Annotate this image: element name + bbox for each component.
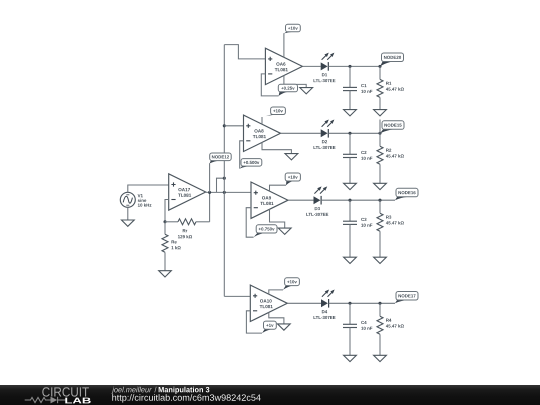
wire xyxy=(224,125,243,127)
node NODE15 xyxy=(380,120,404,134)
voltage source V1 xyxy=(120,192,151,207)
ground xyxy=(344,355,357,361)
ground xyxy=(122,220,135,226)
ground xyxy=(159,271,172,277)
wire xyxy=(262,142,291,153)
ground xyxy=(374,183,387,189)
node NODE16 xyxy=(395,188,418,200)
capacitor C1 xyxy=(343,66,372,93)
LED D2 xyxy=(314,120,336,150)
wire xyxy=(379,231,381,257)
capacitor C2 xyxy=(343,133,372,160)
junction xyxy=(348,65,351,68)
power +10v flag xyxy=(269,278,300,294)
wire xyxy=(379,97,381,109)
wire xyxy=(379,334,381,355)
ground xyxy=(344,110,357,116)
wire xyxy=(349,158,351,184)
junction xyxy=(208,191,211,194)
resistor R4 xyxy=(377,303,404,334)
wire xyxy=(349,328,351,356)
power +10v flag xyxy=(284,24,300,57)
ground xyxy=(374,110,387,116)
junction xyxy=(223,191,226,194)
junction xyxy=(348,199,351,202)
power +10v flag xyxy=(270,173,301,191)
wire xyxy=(328,132,380,134)
ground xyxy=(374,257,387,263)
ground xyxy=(278,324,291,330)
wire xyxy=(349,91,351,110)
wire xyxy=(127,207,129,220)
wire xyxy=(329,302,395,304)
ground xyxy=(344,257,357,263)
op-amp OA9 xyxy=(251,182,288,218)
wire xyxy=(165,200,169,222)
LED D3 xyxy=(306,186,328,216)
wire xyxy=(302,65,320,67)
wire xyxy=(209,192,211,221)
LED D4 xyxy=(314,290,336,320)
wire xyxy=(269,312,284,324)
voltage label +0.25v xyxy=(261,74,297,96)
resistor Re xyxy=(162,222,181,253)
junction xyxy=(378,65,381,68)
junction xyxy=(163,220,166,223)
node NODE12 xyxy=(210,153,232,192)
wire xyxy=(217,178,225,192)
ground xyxy=(344,183,357,189)
wire xyxy=(328,65,380,67)
wire xyxy=(206,191,251,193)
voltage label +0.500v xyxy=(240,141,262,169)
wire xyxy=(321,199,395,201)
junction xyxy=(378,199,381,202)
junction xyxy=(348,302,351,305)
resistor R1 xyxy=(377,66,404,97)
junction xyxy=(378,302,381,305)
resistor Rr xyxy=(165,219,210,238)
CircuitLab logo xyxy=(0,385,540,405)
wire xyxy=(128,185,169,192)
ground xyxy=(300,88,313,94)
wire xyxy=(164,252,166,270)
junction xyxy=(348,132,351,135)
junction xyxy=(378,132,381,135)
capacitor C3 xyxy=(343,200,372,227)
op-amp OA10 xyxy=(250,285,287,321)
wire xyxy=(224,45,265,59)
wire xyxy=(287,302,321,304)
LED D1 xyxy=(314,53,336,83)
wire xyxy=(288,199,314,201)
wire xyxy=(224,295,250,297)
op-amp OA8 xyxy=(244,115,281,151)
resistor R2 xyxy=(377,133,404,164)
voltage label +1v xyxy=(246,311,276,333)
junction xyxy=(223,177,226,180)
resistor R3 xyxy=(377,200,404,231)
node NODE17 xyxy=(395,292,418,304)
wire xyxy=(379,164,381,183)
node NODE20 xyxy=(380,53,404,66)
capacitor C4 xyxy=(343,303,372,330)
wire xyxy=(270,209,285,228)
voltage label +0.750v xyxy=(246,208,277,238)
power +10v flag xyxy=(262,107,285,124)
ground xyxy=(278,228,291,234)
wire xyxy=(349,224,351,257)
ground xyxy=(374,355,387,361)
op-amp OA6 xyxy=(265,48,302,84)
wire xyxy=(281,132,321,134)
wire xyxy=(284,76,306,88)
junction xyxy=(223,124,226,127)
ground xyxy=(285,154,298,160)
op-amp OA17 xyxy=(169,174,206,210)
wire xyxy=(223,45,225,297)
